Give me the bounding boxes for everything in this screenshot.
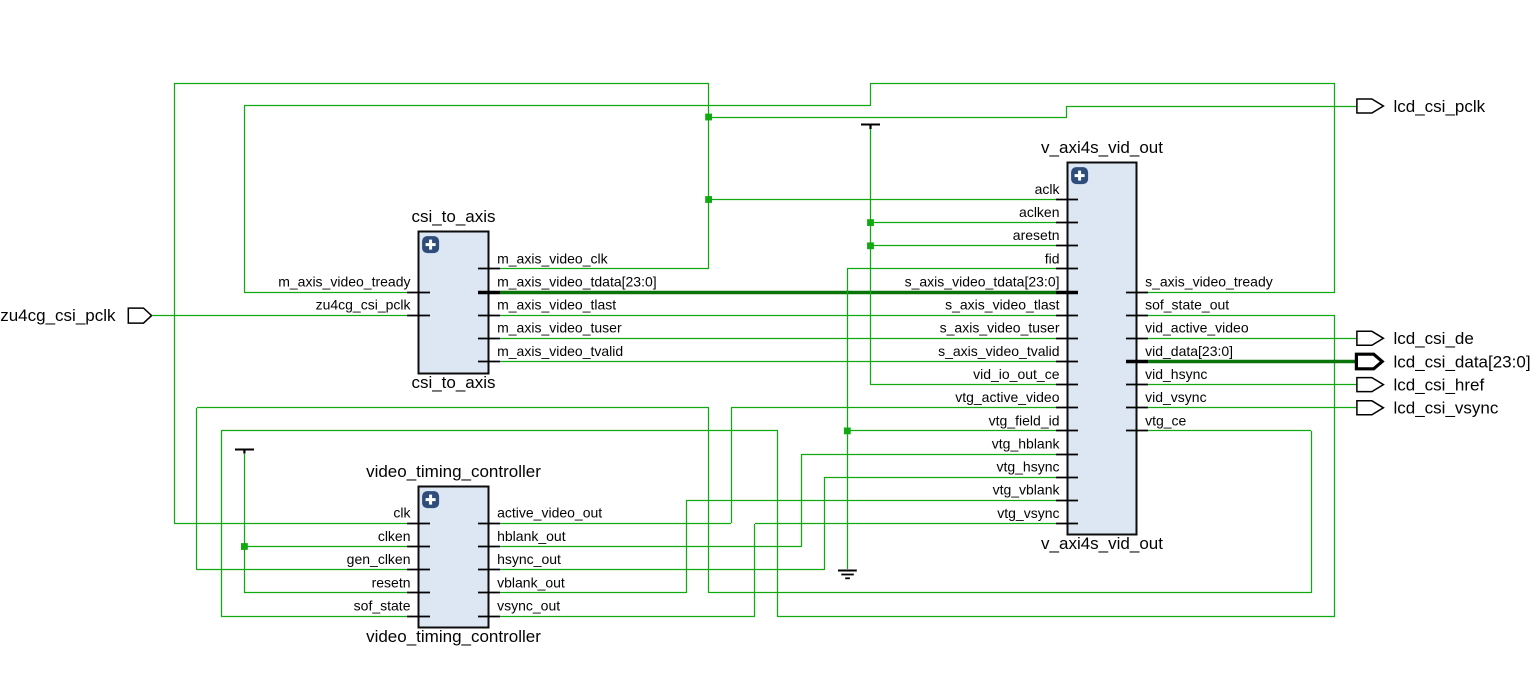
pin video_timing_controller.gen_clken (input, stub + label) bbox=[407, 569, 430, 571]
wire net sof_state_out: right drop x=1334.8 (v) bbox=[1334, 315, 1336, 617]
pin csi_to_axis.m_axis_video_tuser (output, stub + label) bbox=[478, 338, 500, 340]
pin video_timing_controller.clken (input, stub + label) bbox=[407, 546, 430, 548]
wire net vsync_out: from vtc pin (h) bbox=[500, 616, 755, 618]
wire net vtg_ce: riser x=708.6 (v) bbox=[708, 408, 710, 593]
wire net active_video_out: riser x=731.3 (v) bbox=[731, 408, 733, 523]
svg-text:vtg_active_video: vtg_active_video bbox=[955, 389, 1060, 405]
wire net m_axis_video_clk: pin to corner (h) bbox=[500, 268, 709, 270]
wire net vid_vsync to lcd_csi_vsync (h) bbox=[1148, 407, 1357, 409]
svg-text:vid_io_out_ce: vid_io_out_ce bbox=[973, 366, 1060, 382]
external output port lcd_csi_href (arrow symbol) bbox=[1357, 378, 1384, 392]
svg-text:m_axis_video_tready: m_axis_video_tready bbox=[278, 274, 410, 290]
block v_axi4s_vid_out expand + icon bbox=[1071, 167, 1088, 184]
bus net vid_data[23:0] to lcd_csi_data (thick h) bbox=[1148, 360, 1356, 364]
wire net vblank_out: riser x=686 (v) bbox=[686, 500, 688, 593]
svg-text:m_axis_video_tvalid: m_axis_video_tvalid bbox=[497, 343, 623, 359]
wire net m_axis_video_clk: to lcd_csi_pclk port (h) bbox=[1067, 106, 1357, 108]
svg-text:video_timing_controller: video_timing_controller bbox=[366, 462, 541, 481]
svg-text:lcd_csi_data[23:0]: lcd_csi_data[23:0] bbox=[1394, 352, 1531, 371]
junction vcc2 at clken row bbox=[241, 543, 248, 550]
svg-text:v_axi4s_vid_out: v_axi4s_vid_out bbox=[1041, 534, 1163, 553]
pin v_axi4s_vid_out.s_axis_video_tlast (input, stub + label) bbox=[1056, 315, 1078, 317]
pin video_timing_controller.clk (input, stub + label) bbox=[407, 523, 430, 525]
junction gnd at vtg_field_id row bbox=[844, 428, 851, 435]
wire net m_axis_video_tuser (h) bbox=[500, 338, 1056, 340]
svg-text:active_video_out: active_video_out bbox=[497, 505, 602, 521]
wire net vid_active_video to lcd_csi_de (h) bbox=[1148, 338, 1357, 340]
svg-text:vid_active_video: vid_active_video bbox=[1145, 320, 1249, 336]
wire net sof_state_out: bottom run y=616.6 (h) bbox=[778, 616, 1335, 618]
block csi_to_axis body bbox=[419, 232, 489, 374]
svg-text:lcd_csi_pclk: lcd_csi_pclk bbox=[1394, 97, 1486, 116]
pin v_axi4s_vid_out.vid_active_video (output, stub + label) bbox=[1126, 338, 1148, 340]
wire net vcc1: branch to aresetn (h) bbox=[870, 245, 1056, 247]
svg-text:s_axis_video_tuser: s_axis_video_tuser bbox=[940, 320, 1060, 336]
junction clock net at (708.6,117) bbox=[705, 114, 712, 121]
pin v_axi4s_vid_out.vtg_vsync (input, stub + label) bbox=[1056, 523, 1078, 525]
pin v_axi4s_vid_out.vtg_hsync (input, stub + label) bbox=[1056, 477, 1078, 479]
pin v_axi4s_vid_out.vid_io_out_ce (input, stub + label) bbox=[1056, 384, 1078, 386]
pin v_axi4s_vid_out.aclk (input, stub + label) bbox=[1056, 199, 1078, 201]
wire net m_axis_video_clk: branch to lcd_csi_pclk (h) bbox=[709, 117, 1067, 119]
wire net hsync_out: from vtc pin (h) bbox=[500, 569, 824, 571]
pin v_axi4s_vid_out.sof_state_out (output, stub + label) bbox=[1126, 315, 1148, 317]
pin v_axi4s_vid_out.vtg_field_id (input, stub + label) bbox=[1056, 430, 1078, 432]
svg-text:zu4cg_csi_pclk: zu4cg_csi_pclk bbox=[0, 306, 116, 325]
wire net vtg_ce: to vtc gen_clken (h) bbox=[197, 569, 407, 571]
wire net sof_state_out: left drop x=221 (v) bbox=[221, 431, 223, 616]
wire net active_video_out: to vtg_active_video (h) bbox=[731, 407, 1056, 409]
wire net gnd: riser x=847.3 (v) bbox=[847, 269, 849, 569]
wire net vblank_out: to vtg_vblank (h) bbox=[686, 500, 1056, 502]
pin v_axi4s_vid_out.vtg_vblank (input, stub + label) bbox=[1056, 500, 1078, 502]
svg-text:hsync_out: hsync_out bbox=[497, 551, 561, 567]
pin v_axi4s_vid_out.s_axis_video_tuser (input, stub + label) bbox=[1056, 338, 1078, 340]
wire net vsync_out: to vtg_vsync (h) bbox=[755, 523, 1056, 525]
pin csi_to_axis.m_axis_video_tready (input, stub + label) bbox=[407, 292, 430, 294]
wire net vcc2: drop x=244.4 (v) bbox=[244, 454, 246, 593]
svg-text:m_axis_video_clk: m_axis_video_clk bbox=[497, 250, 608, 266]
junction vcc1 at aclken row bbox=[867, 219, 874, 226]
svg-text:v_axi4s_vid_out: v_axi4s_vid_out bbox=[1041, 138, 1163, 157]
svg-text:vblank_out: vblank_out bbox=[497, 574, 565, 590]
external output port lcd_csi_vsync (arrow symbol) bbox=[1357, 401, 1384, 415]
wire net s_axis_video_tready: to csi m_axis_video_tready (h) bbox=[244, 292, 407, 294]
svg-text:aclk: aclk bbox=[1035, 181, 1061, 197]
wire net s_axis_video_tready: right riser (v) bbox=[1334, 83, 1336, 292]
pin v_axi4s_vid_out.s_axis_video_tvalid (input, stub + label) bbox=[1056, 361, 1078, 363]
junction clock net at (708.6,199.5) bbox=[705, 196, 712, 203]
wire net vblank_out: from vtc pin (h) bbox=[500, 592, 686, 594]
svg-text:vtg_vblank: vtg_vblank bbox=[993, 482, 1061, 498]
pin video_timing_controller.hsync_out (output, stub + label) bbox=[478, 569, 500, 571]
pin v_axi4s_vid_out.fid (input, stub + label) bbox=[1056, 268, 1078, 270]
wire net vcc1: drop x=870.5 (v) bbox=[870, 129, 872, 385]
wire net s_axis_video_tready: pin to corner (h) bbox=[1148, 292, 1335, 294]
svg-text:s_axis_video_tvalid: s_axis_video_tvalid bbox=[938, 343, 1059, 359]
wire net vtg_ce: run y=592.9 (h) bbox=[709, 592, 1311, 594]
pin v_axi4s_vid_out.vid_vsync (output, stub + label) bbox=[1126, 407, 1148, 409]
svg-text:vid_data[23:0]: vid_data[23:0] bbox=[1145, 343, 1233, 359]
pin v_axi4s_vid_out.vtg_active_video (input, stub + label) bbox=[1056, 407, 1078, 409]
svg-text:lcd_csi_vsync: lcd_csi_vsync bbox=[1394, 399, 1499, 418]
pin video_timing_controller.hblank_out (output, stub + label) bbox=[478, 546, 500, 548]
pin video_timing_controller.active_video_out (output, stub + label) bbox=[478, 523, 500, 525]
block csi_to_axis expand + icon bbox=[422, 236, 439, 253]
wire net m_axis_video_clk: branch to v_axi4s aclk (h) bbox=[709, 199, 1056, 201]
pin video_timing_controller.vblank_out (output, stub + label) bbox=[478, 592, 500, 594]
block video_timing_controller expand + icon bbox=[422, 491, 439, 508]
wire net vtg_ce: right drop x=1311.4 (v) bbox=[1311, 431, 1313, 593]
svg-text:m_axis_video_tuser: m_axis_video_tuser bbox=[497, 320, 622, 336]
svg-text:vtg_hblank: vtg_hblank bbox=[992, 435, 1061, 451]
junction vcc1 at aresetn row bbox=[867, 242, 874, 249]
svg-text:hblank_out: hblank_out bbox=[497, 528, 566, 544]
pin csi_to_axis.zu4cg_csi_pclk (input, stub + label) bbox=[407, 315, 430, 317]
wire net hblank_out: from vtc pin (h) bbox=[500, 546, 802, 548]
power symbol VCC2 (constant 1) near vtc bbox=[235, 449, 254, 453]
pin csi_to_axis.m_axis_video_tvalid (output, stub + label) bbox=[478, 361, 500, 363]
svg-text:vtg_vsync: vtg_vsync bbox=[997, 505, 1059, 521]
wire net sof_state_out: riser x=777.7 (v) bbox=[777, 431, 779, 617]
svg-text:aresetn: aresetn bbox=[1013, 227, 1060, 243]
wire net hblank_out: to vtg_hblank (h) bbox=[802, 454, 1056, 456]
svg-text:csi_to_axis: csi_to_axis bbox=[411, 373, 495, 392]
wire net hsync_out: to vtg_hsync (h) bbox=[824, 477, 1056, 479]
svg-text:m_axis_video_tdata[23:0]: m_axis_video_tdata[23:0] bbox=[497, 274, 657, 290]
wire net m_axis_video_clk: top run y=83 (h) bbox=[174, 83, 709, 85]
svg-text:vid_hsync: vid_hsync bbox=[1145, 366, 1207, 382]
wire net vcc2: to resetn (h) bbox=[244, 592, 407, 594]
svg-text:aclken: aclken bbox=[1019, 204, 1059, 220]
svg-text:csi_to_axis: csi_to_axis bbox=[411, 207, 495, 226]
wire net hsync_out: riser x=824.4 (v) bbox=[824, 477, 826, 570]
wire net sof_state_out: run y=430.8 (h) bbox=[221, 430, 778, 432]
wire net m_axis_video_clk: riser x=708 (v) bbox=[708, 83, 710, 269]
svg-text:gen_clken: gen_clken bbox=[347, 551, 411, 567]
wire net s_axis_video_tready: left drop x=244 (v) bbox=[244, 106, 246, 292]
wire net m_axis_video_clk: step up (v) bbox=[1066, 106, 1068, 117]
pin v_axi4s_vid_out.vtg_hblank (input, stub + label) bbox=[1056, 454, 1078, 456]
external input port zu4cg_csi_pclk (arrow symbol) bbox=[128, 308, 151, 323]
wire net sof_state_out: to vtc sof_state (h) bbox=[221, 616, 407, 618]
wire net active_video_out: from vtc pin (h) bbox=[500, 523, 731, 525]
wire net gnd: branch to vtg_field_id (h) bbox=[847, 430, 1056, 432]
wire net m_axis_video_tlast (h) bbox=[500, 315, 1056, 317]
wire net s_axis_video_tready: step down (v) bbox=[870, 83, 872, 106]
wire net s_axis_video_tready: run y=105.5 (h) bbox=[244, 105, 870, 107]
ground symbol GND (constant 0) bbox=[838, 571, 857, 579]
svg-text:lcd_csi_href: lcd_csi_href bbox=[1394, 375, 1485, 394]
block v_axi4s_vid_out body bbox=[1068, 163, 1137, 535]
external output port lcd_csi_de (arrow symbol) bbox=[1357, 331, 1384, 345]
wire net vid_hsync to lcd_csi_href (h) bbox=[1148, 384, 1357, 386]
pin csi_to_axis.m_axis_video_tlast (output, stub + label) bbox=[478, 315, 500, 317]
wire net gnd: to fid (h) bbox=[847, 268, 1056, 270]
wire net vcc1: to vid_io_out_ce (h) bbox=[870, 384, 1056, 386]
pin v_axi4s_vid_out.aclken (input, stub + label) bbox=[1056, 222, 1078, 224]
wire net vcc2: branch to clken (h) bbox=[244, 546, 407, 548]
svg-text:vid_vsync: vid_vsync bbox=[1145, 389, 1206, 405]
pin v_axi4s_vid_out.vid_hsync (output, stub + label) bbox=[1126, 384, 1148, 386]
svg-text:s_axis_video_tready: s_axis_video_tready bbox=[1145, 274, 1273, 290]
svg-text:sof_state: sof_state bbox=[354, 598, 411, 614]
pin video_timing_controller.resetn (input, stub + label) bbox=[407, 592, 430, 594]
wire net vtg_ce: run y=407.6 (h) bbox=[197, 407, 709, 409]
block video_timing_controller body bbox=[419, 487, 489, 628]
wire net hblank_out: riser x=801.5 (v) bbox=[801, 454, 803, 546]
svg-text:s_axis_video_tdata[23:0]: s_axis_video_tdata[23:0] bbox=[905, 274, 1060, 290]
pin video_timing_controller.vsync_out (output, stub + label) bbox=[478, 616, 500, 618]
wire net vtg_ce: pin to corner (h) bbox=[1148, 430, 1311, 432]
svg-text:vsync_out: vsync_out bbox=[497, 598, 560, 614]
bus net m_axis_video_tdata[23:0] (thick h) bbox=[500, 291, 1056, 295]
svg-text:video_timing_controller: video_timing_controller bbox=[366, 627, 541, 646]
external output port lcd_csi_pclk (arrow symbol) bbox=[1357, 99, 1384, 113]
external output port lcd_csi_data[23:0] (bus arrow symbol) bbox=[1356, 354, 1382, 369]
pin v_axi4s_vid_out.s_axis_video_tready (output, stub + label) bbox=[1126, 292, 1148, 294]
power symbol VCC (constant 1) near v_axi4s bbox=[861, 124, 880, 129]
svg-text:vtg_hsync: vtg_hsync bbox=[996, 459, 1059, 475]
pin video_timing_controller.sof_state (input, stub + label) bbox=[407, 616, 430, 618]
pin v_axi4s_vid_out.vid_data[23:0] (output, stub + label) bbox=[1126, 360, 1148, 364]
wire zu4cg_csi_pclk port to csi_to_axis.zu4cg_csi_pclk (h) bbox=[152, 315, 407, 317]
wire net m_axis_video_tvalid (h) bbox=[500, 361, 1056, 363]
svg-text:zu4cg_csi_pclk: zu4cg_csi_pclk bbox=[316, 297, 412, 313]
wire net sof_state_out: pin to corner (h) bbox=[1148, 315, 1335, 317]
pin csi_to_axis.m_axis_video_clk (output, stub + label) bbox=[478, 268, 500, 270]
svg-text:clken: clken bbox=[378, 528, 411, 544]
svg-text:s_axis_video_tlast: s_axis_video_tlast bbox=[945, 297, 1060, 313]
svg-text:clk: clk bbox=[393, 505, 411, 521]
svg-text:lcd_csi_de: lcd_csi_de bbox=[1394, 329, 1474, 348]
wire net m_axis_video_clk: left drop x=174 (v) bbox=[174, 83, 176, 523]
svg-text:vtg_field_id: vtg_field_id bbox=[989, 412, 1060, 428]
wire net s_axis_video_tready: top run y=83 (h) bbox=[870, 83, 1335, 85]
svg-text:vtg_ce: vtg_ce bbox=[1145, 412, 1186, 428]
pin v_axi4s_vid_out.vtg_ce (output, stub + label) bbox=[1126, 430, 1148, 432]
wire net vtg_ce: left drop x=196.8 (v) bbox=[196, 408, 198, 570]
wire net m_axis_video_clk: to vtc clk (h) bbox=[174, 523, 407, 525]
svg-text:sof_state_out: sof_state_out bbox=[1145, 297, 1229, 313]
wire net vsync_out: riser x=754.9 (v) bbox=[754, 524, 756, 616]
svg-text:fid: fid bbox=[1045, 250, 1060, 266]
svg-text:m_axis_video_tlast: m_axis_video_tlast bbox=[497, 297, 616, 313]
pin v_axi4s_vid_out.aresetn (input, stub + label) bbox=[1056, 245, 1078, 247]
wire net vcc1: branch to aclken (h) bbox=[870, 222, 1056, 224]
svg-text:resetn: resetn bbox=[372, 574, 411, 590]
pin v_axi4s_vid_out.s_axis_video_tdata[23:0] (input, stub + label) bbox=[1056, 291, 1078, 295]
pin csi_to_axis.m_axis_video_tdata[23:0] (output, stub + label) bbox=[478, 291, 500, 295]
